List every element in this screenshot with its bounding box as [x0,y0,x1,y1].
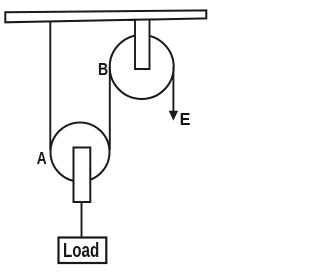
svg-text:A: A [37,149,47,168]
ceiling beam [5,10,206,22]
arrowhead E (effort direction) [169,111,178,121]
wire: ceiling to pulley A (left rope) [49,21,51,151]
pulley A hook block [74,148,91,203]
wire: pulley A to pulley B (middle rope) [109,67,111,150]
svg-text:B: B [98,60,108,80]
pulley A [51,123,110,182]
load box [59,238,107,264]
svg-text:E: E [180,109,191,129]
pulley B [110,35,174,99]
ceiling beam bottom edge across bracket [128,18,156,21]
wire: hook block to load [81,202,83,238]
svg-text:Load: Load [63,239,99,262]
pulley B bracket [135,19,150,69]
wire: pulley B down to effort (right rope) [172,67,174,113]
